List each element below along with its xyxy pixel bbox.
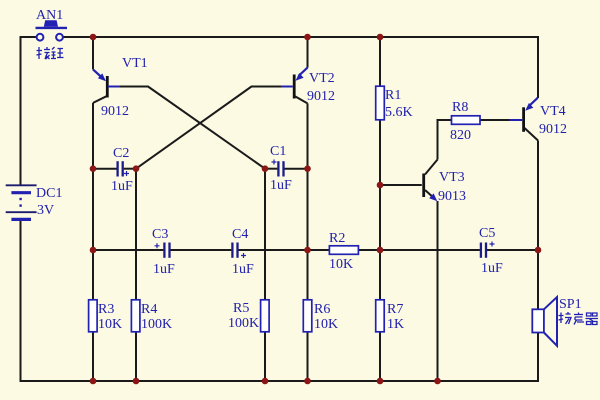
label 扬声器 (speaker, hand-drawn strokes) <box>559 312 599 325</box>
svg-text:R7: R7 <box>387 302 403 317</box>
svg-text:VT2: VT2 <box>309 71 335 86</box>
node bottom x93 <box>90 378 97 385</box>
node C1 right <box>304 165 311 172</box>
wire y=250 row: node x93 to C3 <box>93 249 163 251</box>
node y250 x307.5 <box>304 247 311 254</box>
wire left rail upper <box>20 36 22 185</box>
node C2 right <box>133 165 140 172</box>
wire VT3 collector up and right to R8 <box>438 120 452 160</box>
resistor R1 <box>376 86 385 120</box>
wire y=250 row: C5 to right rail <box>487 249 538 251</box>
wire VT1 base diagonal to C1 left node <box>148 87 265 169</box>
wire right rail lower (VT4 collector to bottom) <box>537 141 539 383</box>
pushbutton AN1 <box>21 20 94 40</box>
wire R8 right end to VT4 base <box>480 119 510 121</box>
node bottom x265 <box>262 378 269 385</box>
wire x=265 R5 bottom to bottom rail <box>264 332 266 381</box>
wire x=136 R4 bottom to bottom rail <box>135 332 137 381</box>
svg-text:9012: 9012 <box>539 122 567 137</box>
node C1 left <box>262 165 269 172</box>
svg-text:1uF: 1uF <box>232 262 254 277</box>
svg-text:9013: 9013 <box>438 189 466 204</box>
wire x=265 from C1 left node down to R5 <box>264 169 266 300</box>
wire x=93 R3 bottom to bottom rail <box>92 332 94 381</box>
wire y=250 row: C3 to C4 <box>171 249 232 251</box>
svg-text:1uF: 1uF <box>481 261 503 276</box>
svg-text:1uF: 1uF <box>111 179 133 194</box>
svg-text:C2: C2 <box>113 146 129 161</box>
wire x=307.5 top rail to VT2 emitter <box>307 37 309 68</box>
resistor R8 <box>452 116 481 125</box>
wire x=380 top rail to R1 <box>379 37 381 86</box>
speaker SP1 <box>532 297 557 346</box>
wire top rail <box>63 36 538 38</box>
node at top rail x=380 <box>377 34 384 41</box>
resistor R3 <box>89 300 98 332</box>
wire C2 row right segment <box>124 168 136 170</box>
svg-text:100K: 100K <box>141 317 172 332</box>
capacitor C3 <box>155 243 170 258</box>
resistor R5 <box>261 300 270 332</box>
wire x=93 from top rail to VT1 emitter <box>92 37 94 69</box>
svg-text:C5: C5 <box>479 226 495 241</box>
svg-text:1uF: 1uF <box>153 262 175 277</box>
svg-text:10K: 10K <box>314 317 338 332</box>
svg-text:R8: R8 <box>452 100 468 115</box>
label 按钮 (pushbutton, hand-drawn strokes) <box>37 47 64 59</box>
capacitor C5 <box>481 242 495 258</box>
svg-text:R4: R4 <box>141 302 157 317</box>
wire y=250 row: C4 to R2 <box>239 249 330 251</box>
node y250 x93 <box>90 247 97 254</box>
svg-text:3V: 3V <box>37 203 54 218</box>
node bottom x136 <box>133 378 140 385</box>
svg-text:1K: 1K <box>387 317 404 332</box>
svg-text:10K: 10K <box>98 317 122 332</box>
svg-text:C1: C1 <box>270 144 286 159</box>
svg-text:AN1: AN1 <box>36 8 63 23</box>
resistor R4 <box>131 300 140 332</box>
transistor VT2 <box>280 68 308 104</box>
capacitor C2 <box>118 161 129 176</box>
node at top rail x=307.5 <box>304 34 311 41</box>
wire VT3 base from x380 node <box>380 184 422 186</box>
svg-text:9012: 9012 <box>101 104 129 119</box>
svg-text:1uF: 1uF <box>270 178 292 193</box>
resistor R6 <box>303 300 312 332</box>
svg-text:R6: R6 <box>314 302 330 317</box>
wire C1 row left segment <box>265 168 277 170</box>
svg-text:VT4: VT4 <box>540 104 566 119</box>
svg-text:R3: R3 <box>98 302 114 317</box>
svg-text:R2: R2 <box>329 231 345 246</box>
wire left rail lower <box>20 220 22 382</box>
svg-text:C4: C4 <box>232 227 248 242</box>
transistor VT3 <box>422 160 437 202</box>
svg-text:C3: C3 <box>152 227 168 242</box>
svg-text:R5: R5 <box>233 301 249 316</box>
svg-text:100K: 100K <box>228 316 259 331</box>
node at top rail x=93 <box>90 34 97 41</box>
wire bottom rail <box>21 380 540 382</box>
svg-text:DC1: DC1 <box>36 186 62 201</box>
wire x=307.5 VT2 collector down to R6 <box>307 103 309 300</box>
svg-text:VT1: VT1 <box>122 56 148 71</box>
node y250 x538 <box>535 247 542 254</box>
wire x=380 R1 bottom through VT3 base node and R2 node to R7 <box>379 120 381 300</box>
wire x=93 VT1 collector down to R3 <box>92 103 94 300</box>
wire right rail upper (to VT4 emitter) <box>537 36 539 98</box>
wire y=250 row: R2 to C5 <box>359 249 480 251</box>
svg-text:9012: 9012 <box>307 89 335 104</box>
wire VT1 base horizontal <box>120 86 149 88</box>
wire x=136 from C2 right node down to R4 <box>135 169 137 300</box>
svg-text:SP1: SP1 <box>559 297 582 312</box>
capacitor C4 <box>232 243 246 259</box>
resistor R2 <box>329 246 358 255</box>
battery DC1 <box>6 185 37 219</box>
wire x=380 R7 bottom to bottom rail <box>379 332 381 381</box>
svg-text:R1: R1 <box>385 88 401 103</box>
wire VT2 base diagonal to C2 right node <box>136 87 252 169</box>
node C2 left <box>90 165 97 172</box>
svg-text:VT3: VT3 <box>439 170 465 185</box>
node bottom x437.5 <box>434 378 441 385</box>
node VT3 base <box>377 182 384 189</box>
capacitor C1 <box>272 160 284 177</box>
wire C1 row right segment <box>285 168 308 170</box>
wire C2 row left segment <box>93 168 117 170</box>
wire x=437.5 VT3 emitter to bottom rail <box>437 201 439 381</box>
svg-text:10K: 10K <box>329 257 353 272</box>
svg-text:820: 820 <box>450 128 471 143</box>
node bottom x380 <box>377 378 384 385</box>
resistor R7 <box>376 300 385 332</box>
wire VT2 base horizontal <box>251 86 281 88</box>
wire x=307.5 R6 bottom to bottom rail <box>307 332 309 381</box>
svg-text:5.6K: 5.6K <box>385 105 413 120</box>
node bottom x307.5 <box>304 378 311 385</box>
transistor VT4 <box>510 98 539 141</box>
transistor VT1 <box>93 69 122 103</box>
node y250 x380 <box>377 247 384 254</box>
